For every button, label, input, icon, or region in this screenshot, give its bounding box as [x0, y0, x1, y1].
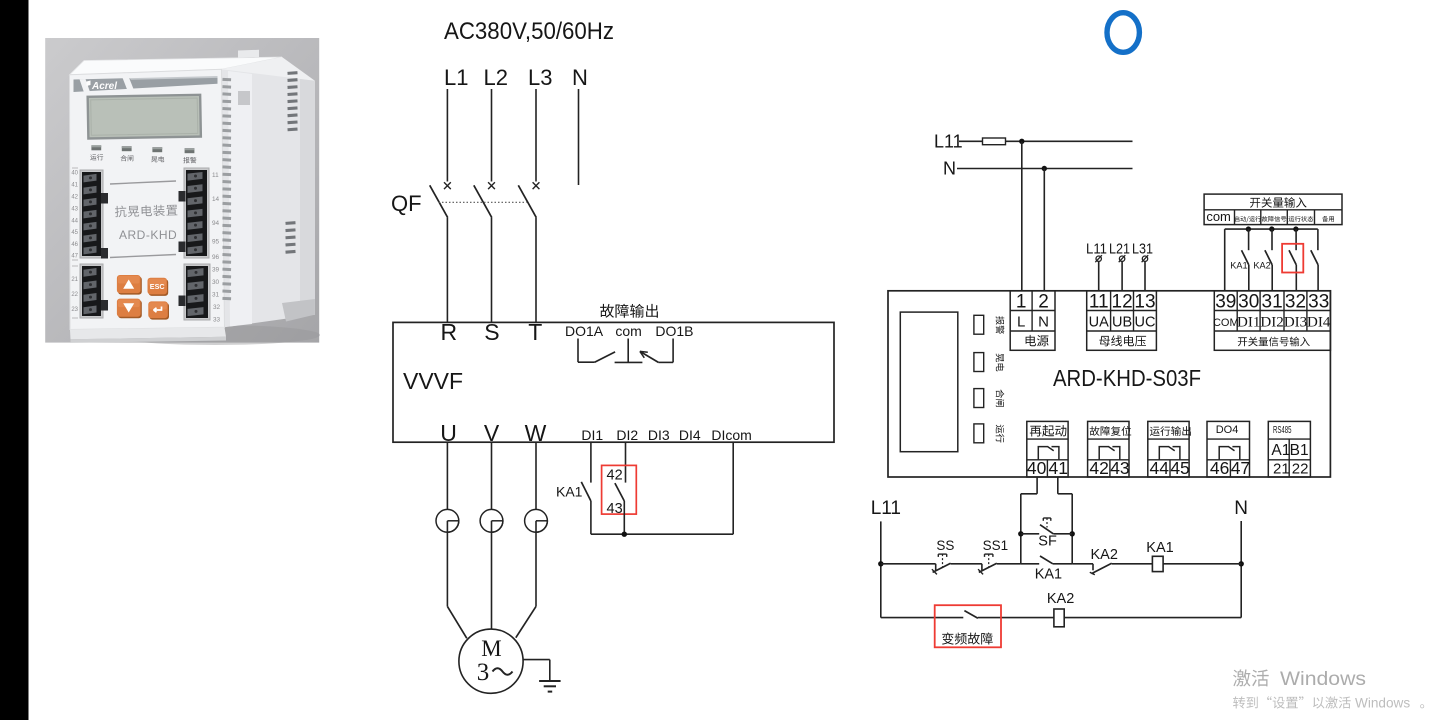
svg-text:13: 13: [1134, 292, 1155, 313]
cell label 启动/运行: [1234, 216, 1261, 222]
breaker contact cross L2: [488, 182, 495, 189]
svg-text:SS1: SS1: [983, 538, 1009, 553]
svg-text:N: N: [1038, 314, 1049, 331]
red highlight box 变频故障: [935, 605, 1001, 647]
device top-right chamfer: [222, 57, 315, 81]
relay output block 运行输出: [1148, 421, 1189, 477]
junction N/terminal2: [1042, 166, 1047, 171]
svg-text:L31: L31: [1132, 242, 1153, 258]
svg-text:43: 43: [1110, 458, 1129, 478]
svg-text:COM: COM: [1213, 317, 1239, 329]
relay output block 再起动: [1027, 421, 1068, 477]
contact 变频故障 (NO) blade: [964, 611, 978, 619]
input switch 1 to terminal: [1248, 229, 1250, 250]
breaker QF blade: [474, 185, 492, 217]
junction SF branch left: [1018, 531, 1023, 536]
device side face: [222, 69, 315, 327]
svg-text:39: 39: [212, 267, 220, 274]
svg-text:L11: L11: [871, 498, 901, 519]
svg-text:Windows: Windows: [1280, 669, 1366, 690]
svg-text:DI2: DI2: [1260, 315, 1283, 331]
svg-text:N: N: [1234, 498, 1248, 519]
wire right rail N: [1240, 521, 1242, 618]
wire left rail L11: [880, 521, 882, 617]
panel clip: [179, 191, 186, 202]
svg-text:44: 44: [71, 219, 78, 225]
junction L11/terminal1: [1019, 139, 1024, 144]
wire L3 incoming: [535, 89, 537, 182]
LED label 报警: [996, 316, 1005, 334]
wire bus to COM terminal 39: [1224, 229, 1226, 291]
panel LED label 晃电: [151, 156, 164, 162]
svg-text:L3: L3: [528, 65, 552, 90]
svg-text:ESC: ESC: [150, 282, 165, 291]
wire com bar: [615, 361, 643, 363]
VVVF inverter box: [393, 322, 834, 442]
block label 故障复位: [1090, 426, 1132, 436]
button ESC: [149, 279, 169, 296]
wire DI common bottom run: [591, 533, 733, 535]
button up: [118, 277, 142, 295]
contact 42-43 blade: [615, 483, 624, 501]
wire DO1B stub: [672, 339, 674, 363]
wire rung segment 5: [1112, 563, 1153, 565]
relay output block 故障复位: [1088, 421, 1129, 477]
svg-text:T: T: [528, 319, 542, 345]
panel LED 合闸: [122, 146, 132, 151]
relay contact KA1 (NO, rung): [1021, 563, 1039, 565]
ground symbol: [539, 680, 561, 682]
LED indicator 晃电: [974, 353, 984, 372]
svg-text:2: 2: [1038, 292, 1049, 313]
terminal block 母线电压 grid: [1087, 291, 1157, 351]
svg-text:12: 12: [1112, 292, 1133, 313]
svg-text:SS: SS: [936, 538, 954, 553]
svg-text:DI4: DI4: [679, 427, 701, 443]
svg-text:ARD-KHD: ARD-KHD: [119, 228, 177, 242]
svg-text:M: M: [481, 636, 501, 661]
svg-text:45: 45: [71, 230, 78, 236]
wire L2 incoming: [491, 89, 493, 182]
wire bottom rung 2: [978, 617, 1054, 619]
LED indicator 报警: [974, 315, 984, 334]
side bottom notch: [282, 299, 315, 322]
panel clip: [179, 242, 186, 253]
svg-text:L: L: [1017, 314, 1025, 331]
pushbutton SF (NO): [1021, 533, 1039, 535]
svg-text:S: S: [484, 319, 499, 345]
svg-text:41: 41: [71, 183, 78, 189]
svg-text:43: 43: [71, 207, 78, 213]
panel label 抗晃电装置: [115, 204, 178, 217]
panel clip: [179, 296, 186, 307]
device side tab: [238, 91, 250, 105]
input switch 4 to terminal: [1317, 229, 1319, 250]
contact DO1B blade with arrow: [640, 351, 659, 362]
relay output block DO4: [1207, 421, 1250, 477]
junction bus/DI1: [1246, 226, 1251, 231]
svg-text:B1: B1: [1290, 442, 1309, 459]
wire breaker to VVVF: [446, 218, 448, 323]
svg-text:47: 47: [71, 254, 78, 260]
breaker QF blade: [518, 185, 536, 217]
wire DI1 drop: [590, 442, 592, 482]
wire 43 to bottom: [623, 501, 625, 534]
svg-text:41: 41: [1049, 458, 1068, 478]
fault output label 故障输出: [600, 304, 658, 318]
device side highlight band: [228, 71, 252, 327]
svg-text:31: 31: [212, 292, 220, 299]
device front face: [70, 69, 225, 329]
svg-text:94: 94: [212, 220, 220, 227]
terminal block 电源 grid: [1010, 291, 1055, 351]
wire rung segment 6: [1163, 563, 1241, 565]
svg-text:A1: A1: [1271, 442, 1290, 459]
contact DO1A blade: [595, 352, 616, 362]
svg-text:47: 47: [1231, 458, 1250, 478]
junction DI2 bottom: [622, 532, 627, 537]
svg-text:Windows: Windows: [1355, 696, 1410, 711]
svg-text:com: com: [1206, 209, 1231, 224]
svg-text:42: 42: [71, 195, 78, 201]
svg-text:21: 21: [71, 277, 78, 283]
input switch 2 to terminal: [1271, 229, 1273, 250]
wire N to terminal 2: [1043, 169, 1045, 291]
svg-text:U: U: [440, 420, 457, 446]
LCD screen: [88, 95, 201, 139]
breaker QF blade: [430, 185, 448, 217]
terminal connector lower-left: [80, 264, 103, 318]
LED label 合闸: [996, 390, 1005, 407]
svg-text:22: 22: [71, 292, 78, 298]
wire V to motor: [491, 521, 493, 629]
pushbutton SS1 (NC): [981, 564, 983, 571]
device ARD-KHD-S03F outline: [888, 291, 1330, 477]
wire rung segment 2: [951, 563, 982, 565]
LED indicator 合闸: [974, 389, 984, 408]
block label 再起动: [1030, 425, 1067, 437]
wire L11 to terminal 1: [1021, 141, 1023, 290]
wire DIcom drop: [732, 442, 734, 534]
svg-text:UB: UB: [1112, 315, 1132, 331]
svg-text:42: 42: [607, 468, 623, 484]
panel divider upper: [110, 181, 176, 184]
switch input box cell dividers: [1234, 210, 1236, 225]
svg-text:1: 1: [1016, 292, 1027, 313]
relay coil KA2: [1054, 609, 1064, 627]
svg-text:33: 33: [213, 317, 221, 324]
motor M1 circle: [459, 629, 523, 693]
front bezel rib column: [222, 78, 231, 81]
svg-text:N: N: [943, 159, 956, 179]
product photo background: [45, 38, 319, 343]
blue annotation circle O: [1107, 13, 1139, 53]
wire from terminal 41: [1057, 477, 1059, 494]
fuse FU: [983, 138, 1006, 145]
terminal connector lower-right: [184, 264, 210, 320]
device side right shade: [300, 79, 315, 317]
device LCD display: [900, 312, 958, 452]
panel clip: [101, 193, 108, 204]
block label 开关量信号输入: [1238, 337, 1310, 347]
panel LED 运行: [91, 145, 101, 150]
svg-text:46: 46: [1210, 458, 1229, 478]
button enter: [150, 303, 170, 320]
wire from terminal 40: [1036, 477, 1038, 494]
current transformer CT3 on W: [535, 442, 537, 509]
svg-text:30: 30: [1238, 292, 1259, 313]
svg-text:KA1: KA1: [1230, 260, 1247, 270]
wire N stub: [578, 89, 580, 185]
svg-text:DI2: DI2: [616, 427, 638, 443]
voltage tap terminal for 13: [1142, 256, 1147, 261]
wire motor to ground: [523, 659, 550, 661]
svg-text:W: W: [525, 420, 547, 446]
wire DO1B foot: [658, 361, 673, 363]
wire bottom rung 3: [1064, 617, 1241, 619]
terminal connector upper-left: [80, 170, 103, 258]
svg-text:SF: SF: [1038, 534, 1057, 550]
wire com stub: [627, 339, 629, 363]
switch input common bus: [1225, 228, 1318, 230]
panel divider lower: [110, 255, 176, 258]
input switch 3 to terminal: [1295, 229, 1297, 250]
svg-text:32: 32: [213, 304, 221, 311]
black sidebar (screen edge): [0, 0, 29, 720]
svg-text:DO4: DO4: [1216, 424, 1239, 436]
svg-text:14: 14: [212, 196, 220, 203]
LED indicator 运行: [974, 424, 984, 443]
svg-text:N: N: [572, 65, 588, 90]
junction bus/DI2: [1269, 226, 1274, 231]
wire KA1 to bottom: [590, 501, 592, 534]
svg-text:DO1B: DO1B: [655, 323, 693, 339]
device top face: [70, 57, 283, 75]
cell label 运行状态: [1289, 216, 1314, 222]
svg-text:UC: UC: [1135, 315, 1156, 331]
wire bottom rung 1: [881, 617, 964, 619]
panel clip: [101, 248, 108, 259]
svg-text:L1: L1: [444, 65, 468, 90]
current transformer CT2 on V: [491, 442, 493, 509]
svg-text:RS485: RS485: [1273, 424, 1292, 436]
svg-text:DI4: DI4: [1307, 315, 1331, 331]
relay coil KA1: [1152, 556, 1163, 571]
svg-text:V: V: [484, 420, 500, 446]
wire DO1A stub: [577, 339, 579, 363]
wire breaker to VVVF: [491, 218, 493, 323]
relay contact KA2 (NC, rung): [1092, 564, 1094, 571]
wire rung segment 4: [1072, 563, 1093, 565]
svg-text:com: com: [615, 323, 641, 339]
red highlight box on DI3 input: [1282, 244, 1303, 273]
wire DO1A foot: [578, 361, 595, 363]
block label 电源: [1026, 335, 1049, 347]
svg-text:Acrel: Acrel: [91, 81, 117, 92]
svg-text:31: 31: [1262, 292, 1283, 313]
svg-text:DIcom: DIcom: [711, 427, 751, 443]
svg-text:11: 11: [212, 172, 219, 179]
svg-text:VVVF: VVVF: [403, 368, 463, 394]
svg-text:KA1: KA1: [1035, 566, 1062, 582]
svg-text:AC380V,50/60Hz: AC380V,50/60Hz: [444, 18, 614, 45]
terminal connector upper-right: [184, 168, 209, 258]
panel LED 报警: [185, 148, 195, 153]
wire N bus: [957, 168, 1133, 170]
pushbutton SS (NC): [935, 564, 937, 571]
svg-text:DI3: DI3: [1284, 315, 1307, 331]
LED label 运行: [996, 425, 1005, 443]
svg-text:45: 45: [1170, 458, 1189, 478]
breaker QF linkage (dashed): [439, 201, 527, 203]
title 开关量输入: [1250, 197, 1307, 208]
svg-text:L2: L2: [484, 65, 508, 90]
svg-text:21: 21: [1273, 461, 1290, 478]
svg-text:L11: L11: [934, 132, 963, 152]
breaker contact cross L3: [533, 182, 540, 189]
RS485 block grid: [1268, 421, 1310, 477]
watermark 激活 Windows: [1233, 669, 1269, 686]
switch input box 开关量输入: [1204, 194, 1342, 225]
svg-text:39: 39: [1215, 292, 1236, 313]
svg-text:11: 11: [1089, 292, 1109, 313]
svg-text:DO1A: DO1A: [565, 323, 604, 339]
Acrel band slashes: [80, 79, 91, 92]
side vents lower: [285, 221, 295, 225]
svg-text:DI1: DI1: [1237, 315, 1260, 331]
svg-text:42: 42: [1089, 458, 1108, 478]
svg-text:40: 40: [1027, 458, 1047, 478]
block label 母线电压: [1099, 335, 1146, 346]
button down: [118, 300, 142, 318]
device shadow: [110, 325, 320, 345]
svg-text:L21: L21: [1109, 242, 1130, 258]
wire rung segment 1: [881, 563, 936, 565]
red highlight box 42/43: [602, 465, 637, 514]
svg-text:L11: L11: [1086, 242, 1107, 258]
cell label 备用: [1322, 216, 1334, 222]
current transformer CT1 on U: [446, 442, 448, 509]
panel LED label 报警: [183, 157, 196, 163]
svg-text:KA1: KA1: [556, 484, 583, 500]
voltage tap terminal for 11: [1096, 256, 1101, 261]
svg-text:ARD-KHD-S03F: ARD-KHD-S03F: [1053, 365, 1201, 391]
wire L1 incoming: [446, 89, 448, 182]
svg-text:40: 40: [71, 171, 78, 177]
junction bus/DI3: [1293, 226, 1298, 231]
breaker contact cross L1: [444, 182, 451, 189]
label 变频故障: [942, 633, 993, 645]
svg-text:96: 96: [212, 254, 220, 261]
svg-text:95: 95: [212, 239, 220, 246]
wire L11 to fuse: [959, 140, 983, 142]
svg-text:UA: UA: [1089, 315, 1109, 331]
svg-text:23: 23: [71, 307, 78, 313]
wire U to motor: [446, 521, 448, 607]
svg-text:QF: QF: [391, 191, 422, 216]
cell label 故障信号: [1262, 216, 1287, 222]
device front bottom lip: [70, 327, 226, 339]
terminal block 开关量信号输入 grid: [1214, 291, 1330, 351]
svg-text:R: R: [440, 319, 457, 345]
block label 运行输出: [1150, 426, 1191, 436]
wire DI2 drop: [625, 442, 627, 482]
svg-text:DI3: DI3: [648, 427, 670, 443]
svg-text:32: 32: [1285, 292, 1306, 313]
svg-text:KA2: KA2: [1091, 547, 1118, 563]
svg-text:22: 22: [1292, 461, 1309, 478]
wire W to motor: [535, 521, 537, 607]
svg-text:46: 46: [71, 242, 78, 248]
voltage tap terminal for 12: [1119, 256, 1124, 261]
panel clip: [101, 300, 108, 311]
wire rung segment 3: [997, 563, 1021, 565]
svg-text:33: 33: [1308, 292, 1329, 313]
junction SF branch right: [1070, 531, 1075, 536]
LED label 晃电: [996, 354, 1005, 372]
panel LED label 合闸: [121, 155, 134, 161]
junction left rail/rung: [878, 561, 883, 566]
wire breaker to VVVF: [535, 218, 537, 323]
svg-text:30: 30: [212, 279, 220, 286]
svg-text:44: 44: [1150, 458, 1170, 478]
switch input box row divider: [1204, 209, 1342, 211]
junction right rail/rung: [1239, 561, 1244, 566]
Acrel logo band: [74, 76, 218, 92]
svg-text:KA2: KA2: [1047, 591, 1074, 607]
device top tab: [238, 50, 259, 58]
svg-text:DI1: DI1: [581, 427, 603, 443]
svg-text:3: 3: [477, 659, 490, 686]
svg-text:KA2: KA2: [1253, 260, 1270, 270]
relay contact KA1 (NO) blade: [581, 482, 591, 501]
panel LED label 运行: [90, 154, 103, 160]
side vents upper: [287, 71, 297, 75]
watermark line 2: [1233, 696, 1351, 708]
svg-text:KA1: KA1: [1146, 540, 1173, 556]
panel LED 晃电: [152, 147, 162, 152]
